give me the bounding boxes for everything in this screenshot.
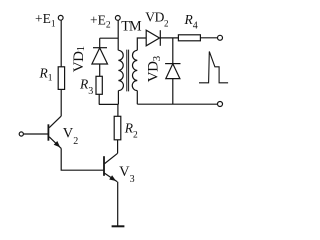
output terminal bottom [218,102,223,107]
output terminal top [218,35,223,40]
svg-text:TM: TM [121,19,142,35]
wire E2 down to transformer primary [117,20,119,50]
resistor R2 [114,116,121,140]
ground [112,225,125,227]
wire R1 to V2 collector [60,89,62,116]
terminal +E1 [58,15,63,20]
left bottom rail [99,103,119,105]
transformer TM primary [118,50,123,104]
wire input to V2 base [23,133,48,135]
input terminal [19,132,23,136]
transistor V3 [104,153,118,182]
wire junction down to VD3 [172,38,174,64]
transistor V2 [48,116,61,148]
resistor R4 [178,35,200,41]
transformer core [127,50,129,92]
resistor R3 [96,76,102,94]
diode VD3 [165,64,180,105]
pulse waveform [199,52,228,83]
wire E1 to R1 [60,20,62,67]
diode VD1 [92,38,108,76]
terminal +E2 [115,16,120,21]
diode VD2 [146,30,160,46]
resistor R1 [58,67,64,90]
wire R3 to left rail [98,94,100,104]
wire V3 collector to R2 [117,140,119,154]
wire R4 to output [200,37,217,39]
wire VD2 to R4 [160,37,178,39]
wire V3 emitter to ground [117,182,119,227]
transformer TM secondary [132,38,146,104]
bottom rail to output [137,103,217,105]
wire V2 emitter to V3 base [61,148,103,170]
wire R2 to bottom rail [117,104,119,116]
wire branch to VD1 [100,37,119,39]
